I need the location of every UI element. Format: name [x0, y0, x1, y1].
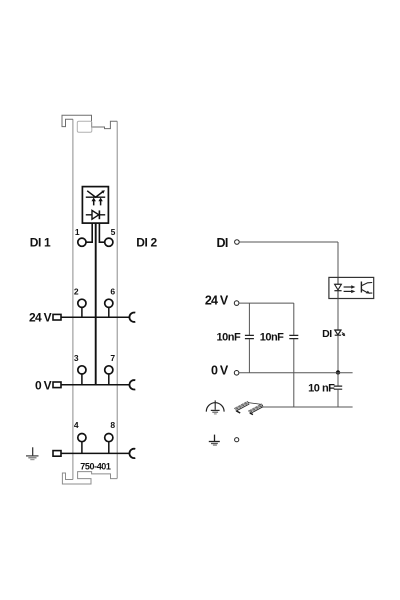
connector 0V (male tab): [53, 382, 61, 388]
svg-text:10nF: 10nF: [260, 331, 284, 343]
wire junction to C3: [337, 373, 339, 386]
wire U1 to terminal 5: [99, 223, 104, 242]
wire stem terminal 6: [108, 307, 110, 317]
svg-text:0 V: 0 V: [35, 379, 52, 393]
svg-text:DI: DI: [322, 328, 332, 340]
svg-text:6: 6: [110, 287, 115, 297]
wire 24V to C2: [293, 303, 295, 335]
wire DI vertical to U2: [337, 242, 339, 277]
wire earth rail: [61, 452, 130, 454]
terminal 7: [105, 366, 113, 374]
svg-text:24 V: 24 V: [29, 311, 52, 325]
wire U1 to terminal 1: [86, 223, 92, 242]
svg-text:4: 4: [74, 420, 79, 430]
svg-text:DI: DI: [216, 236, 227, 250]
terminal 3: [78, 366, 86, 374]
wire LED to 0V junction: [337, 335, 339, 372]
wire 0V rail: [61, 384, 130, 386]
node 0V terminal: [234, 371, 239, 376]
wire stem terminal 2: [81, 307, 83, 317]
terminal 4: [78, 434, 86, 442]
terminal 6: [105, 299, 113, 307]
terminal 5: [105, 238, 113, 246]
wire C3 to rail: [337, 390, 339, 407]
contact fork 0V: [129, 380, 135, 389]
wire 24V to C1: [248, 303, 250, 335]
wire through U2: [337, 277, 339, 298]
node DI terminal: [235, 240, 240, 245]
svg-text:DI 2: DI 2: [136, 236, 157, 250]
LED light rays: [342, 333, 344, 336]
wire C1 to 0V: [248, 339, 250, 373]
DIN rail icon (hatched): [234, 401, 263, 415]
module top latch profile: [62, 115, 117, 128]
wire stem terminal 7: [108, 374, 110, 385]
wire stem terminal 4: [81, 442, 83, 454]
wire stem terminal 3: [81, 374, 83, 385]
terminal 8: [105, 434, 113, 442]
svg-text:24 V: 24 V: [205, 294, 229, 308]
wire chassis rail: [261, 406, 353, 408]
svg-text:10nF: 10nF: [217, 331, 241, 343]
node junction (DI/0V): [336, 370, 340, 374]
svg-text:5: 5: [111, 227, 116, 237]
connector 24V (male tab): [53, 314, 61, 320]
svg-text:2: 2: [74, 287, 79, 297]
wire DI horizontal: [239, 241, 338, 243]
capacitor C3 10nF: [334, 386, 342, 389]
svg-text:10 nF: 10 nF: [308, 383, 335, 395]
svg-text:DI 1: DI 1: [30, 236, 51, 250]
terminal 2: [78, 299, 86, 307]
op-amp U2 (optocoupler box): [329, 277, 374, 298]
wire 0V horizontal: [239, 372, 353, 374]
connector earth (male tab): [53, 451, 61, 457]
svg-text:0 V: 0 V: [211, 364, 229, 378]
transistor Q1 (phototransistor in U2): [361, 282, 372, 294]
wire center bus (U1 to 0V rail): [95, 223, 97, 385]
svg-text:750-401: 750-401: [80, 461, 111, 471]
module bottom latch profile: [62, 472, 117, 484]
diode LED in U2: [334, 284, 341, 290]
wire C2 to rail: [293, 339, 295, 407]
node legend terminal: [235, 438, 239, 442]
function block U1 (input stage box): [82, 187, 108, 224]
capacitor C2 10nF: [289, 335, 298, 338]
svg-text:1: 1: [75, 227, 80, 237]
module right edge: [116, 121, 118, 478]
ground symbol (earth rail): [26, 447, 39, 459]
contact fork 24V: [129, 313, 135, 322]
svg-text:7: 7: [110, 353, 115, 363]
contact fork earth: [129, 449, 135, 458]
wire 24V rail: [61, 316, 130, 318]
wire U2 to LED: [337, 299, 339, 331]
LED indicator symbol (top of U1): [86, 191, 105, 206]
module top latch slider: [77, 121, 92, 132]
diode D1 (bottom of U1): [86, 210, 105, 219]
LED DI status: [335, 330, 341, 335]
capacitor C1 10nF: [245, 335, 254, 338]
wire stem terminal 8: [108, 442, 110, 454]
terminal 1: [78, 238, 86, 246]
svg-text:3: 3: [74, 353, 79, 363]
svg-text:8: 8: [110, 420, 115, 430]
wire 24V horizontal: [239, 302, 294, 304]
module left edge: [72, 119, 74, 479]
ground legend symbol: [209, 435, 220, 446]
node 24V terminal: [234, 301, 239, 306]
light arrows in U2: [344, 287, 352, 291]
ground protective-earth symbol: [206, 400, 224, 414]
